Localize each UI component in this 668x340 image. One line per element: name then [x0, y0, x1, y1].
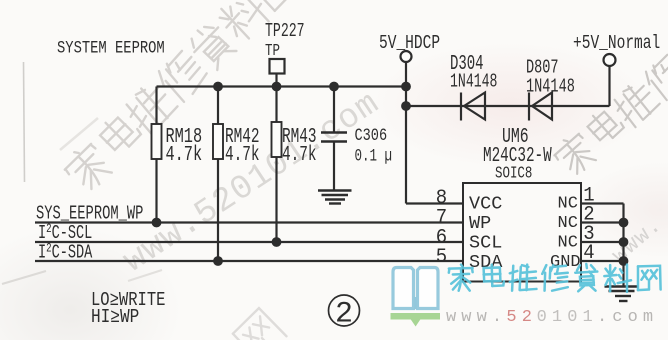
svg-text:NC: NC — [558, 194, 578, 213]
svg-text:4.7k: 4.7k — [282, 144, 317, 167]
wire VCC pin 8 — [406, 202, 463, 204]
logo char 资 — [575, 264, 597, 291]
logo char 维 — [510, 265, 537, 291]
ground (C306) — [318, 191, 352, 204]
terminal +5V_Normal — [604, 54, 616, 66]
wire pin 4 — [581, 260, 624, 262]
wire pin 2 — [581, 221, 624, 223]
wire RM18 bottom to WP — [155, 159, 157, 223]
svg-text:+5V_Normal: +5V_Normal — [573, 33, 660, 54]
wire +5V_Normal drop — [608, 66, 610, 106]
svg-text:VCC: VCC — [469, 193, 502, 214]
svg-text:SDA: SDA — [469, 252, 503, 273]
scan streak — [60, 118, 98, 150]
sheet number circled 2 — [329, 295, 360, 326]
logo char 家 — [449, 265, 473, 291]
test point TP227 square — [270, 59, 285, 74]
watermark char 维 — [610, 78, 661, 129]
IC UM6 M24C32-W body — [463, 183, 581, 282]
svg-text:1N4148: 1N4148 — [450, 70, 497, 92]
svg-text:SOIC8: SOIC8 — [495, 165, 532, 183]
junction node (406,106) — [401, 101, 411, 111]
svg-text:5V_HDCP: 5V_HDCP — [379, 33, 440, 54]
watermark char 资 — [185, 19, 239, 73]
wire I2C-SDA rail — [35, 260, 463, 262]
wire RM18 top — [155, 87, 157, 125]
wire RM43 top — [275, 87, 277, 123]
watermark char 电 — [96, 110, 142, 156]
scan streak — [128, 270, 162, 281]
capacitor C306 — [321, 131, 347, 134]
junction node (276.5,86.5) — [272, 82, 282, 92]
junction node (156.5,222.5) — [152, 218, 162, 228]
diode D304 — [461, 93, 485, 121]
terminal 5V_HDCP — [401, 51, 412, 62]
svg-text:0101: 0101 — [537, 308, 598, 327]
junction node (276.5,242) — [272, 237, 282, 247]
resistor RM18 — [152, 124, 162, 159]
svg-text:TP: TP — [265, 43, 280, 61]
svg-text:NC: NC — [558, 233, 578, 252]
svg-text:0.1 µ: 0.1 µ — [355, 145, 393, 166]
watermark char 网 — [249, 0, 300, 11]
ground (GND pin) — [605, 287, 639, 302]
svg-text:TP227: TP227 — [265, 20, 305, 42]
svg-text:C306: C306 — [355, 125, 388, 145]
svg-text:5: 5 — [436, 245, 447, 268]
svg-text:52: 52 — [506, 308, 537, 327]
wire RM42 bottom to SDA — [217, 159, 219, 261]
svg-text:SCL: SCL — [469, 232, 502, 253]
wire NC/GND vertical — [622, 204, 624, 287]
svg-text:4.7k: 4.7k — [225, 144, 260, 167]
svg-text:NC: NC — [558, 214, 578, 233]
watermark char 电 — [584, 105, 624, 146]
logo char 料 — [604, 265, 631, 292]
watermark char 家 — [551, 130, 599, 179]
svg-text:.com: .com — [597, 308, 658, 327]
svg-text:2: 2 — [335, 298, 353, 332]
wire top bus — [157, 85, 407, 87]
wire C306 top — [333, 87, 335, 133]
logo char 电 — [484, 265, 504, 286]
diode D807 — [529, 93, 552, 121]
junction node (218,261) — [213, 256, 223, 266]
logo char 修 — [542, 265, 568, 291]
wire SYS_EEPROM_WP rail — [35, 221, 463, 223]
scan fold line — [24, 62, 25, 182]
svg-text:WP: WP — [469, 213, 491, 234]
scan streak — [2, 271, 46, 284]
svg-text:SYSTEM EEPROM: SYSTEM EEPROM — [57, 38, 165, 58]
logo book icon — [393, 268, 438, 309]
watermark char 料 — [214, 0, 273, 45]
wire diode row — [406, 105, 610, 107]
wire TP stem — [275, 74, 277, 87]
wire pin 3 — [581, 241, 624, 243]
watermark char 修 — [154, 48, 210, 104]
svg-text:4.7k: 4.7k — [166, 144, 203, 167]
junction node (218,86.5) — [213, 82, 223, 92]
wire RM42 top — [217, 87, 219, 125]
watermark char 修 — [642, 53, 668, 103]
junction node (334,86.5) — [329, 82, 339, 92]
wire I2C-SCL rail — [35, 241, 463, 243]
wire 5V_HDCP vertical — [405, 63, 407, 204]
junction node (623.5,242) — [619, 237, 629, 247]
svg-text:GND: GND — [550, 253, 581, 272]
junction node (623.5,222.5) — [619, 218, 629, 228]
junction node (623.5,261) — [619, 256, 629, 266]
wire pin 1 — [581, 202, 624, 204]
watermark char 网 — [232, 307, 287, 340]
watermark char 家 — [60, 140, 115, 195]
svg-text:1N4148: 1N4148 — [526, 76, 575, 98]
svg-text:www.: www. — [446, 308, 507, 327]
logo book base (green) — [391, 313, 441, 327]
watermark char 维 — [121, 79, 179, 137]
wire C306 to ground — [333, 142, 335, 191]
wire RM43 bottom to SCL — [275, 157, 277, 242]
svg-text:HI≥WP: HI≥WP — [91, 307, 139, 329]
resistor RM43 — [272, 122, 282, 157]
svg-text:4: 4 — [583, 241, 594, 264]
junction node (406,86.5) — [401, 82, 411, 92]
resistor RM42 — [213, 124, 223, 159]
logo char 网 — [638, 266, 661, 290]
